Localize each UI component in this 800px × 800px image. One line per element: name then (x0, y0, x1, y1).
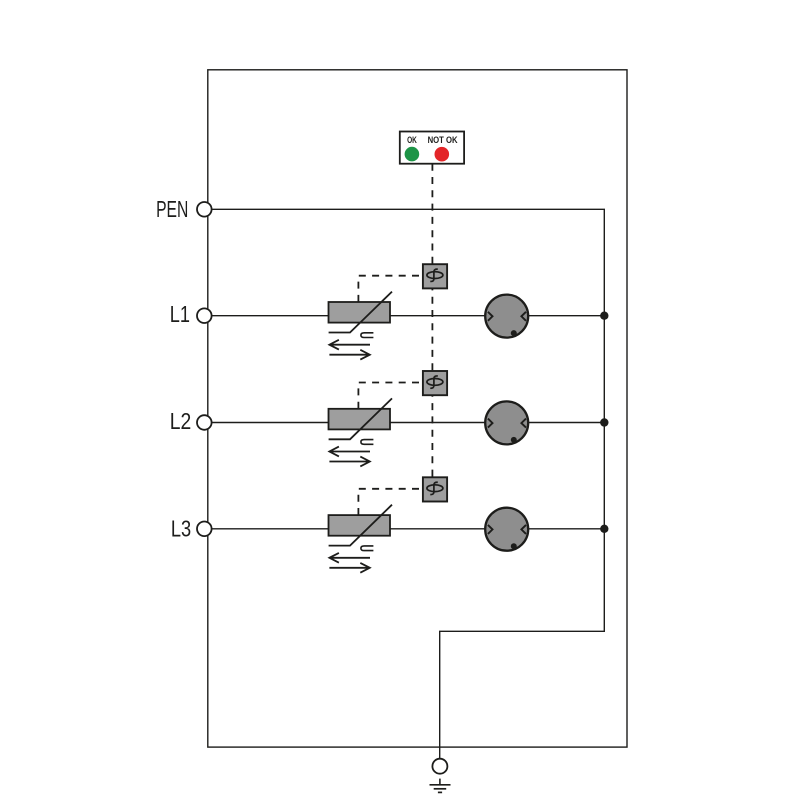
wire L3 (212, 528, 605, 530)
spark gap L3 (485, 508, 528, 551)
svg-text:L1: L1 (170, 301, 190, 327)
thermal disconnector L2 (423, 371, 447, 395)
terminal PEN (197, 202, 212, 217)
svg-text:PEN: PEN (156, 196, 188, 222)
LED red NOT OK (435, 147, 450, 162)
varistor L3 (329, 505, 393, 573)
dashed link varistor L3 to thermal (358, 489, 423, 515)
terminal L1 (197, 308, 212, 323)
terminal earth (432, 759, 447, 774)
junction L3 (600, 525, 608, 533)
LED green OK (405, 147, 420, 162)
thermal disconnector L1 (423, 264, 447, 288)
indicator box (400, 132, 464, 164)
dashed link varistor L1 to thermal (358, 276, 423, 302)
spark gap L1 (485, 295, 528, 338)
varistor L1 (329, 292, 393, 360)
svg-text:NOT OK: NOT OK (428, 135, 459, 145)
ground (430, 779, 451, 793)
svg-text:OK: OK (407, 135, 417, 145)
terminal L3 (197, 522, 212, 537)
dashed monitoring line (431, 164, 433, 479)
wire L1 (212, 315, 605, 317)
junction L2 (600, 418, 608, 426)
enclosure outline (208, 70, 627, 747)
wire PEN bus (212, 209, 605, 759)
junction L1 (600, 312, 608, 320)
wire L2 (212, 422, 605, 424)
varistor L2 (329, 398, 393, 466)
thermal disconnector L3 (423, 477, 447, 501)
dashed link varistor L2 to thermal (358, 383, 423, 409)
terminal L2 (197, 415, 212, 430)
spark gap L2 (485, 401, 528, 444)
svg-text:L2: L2 (170, 408, 192, 434)
svg-text:L3: L3 (171, 515, 191, 541)
